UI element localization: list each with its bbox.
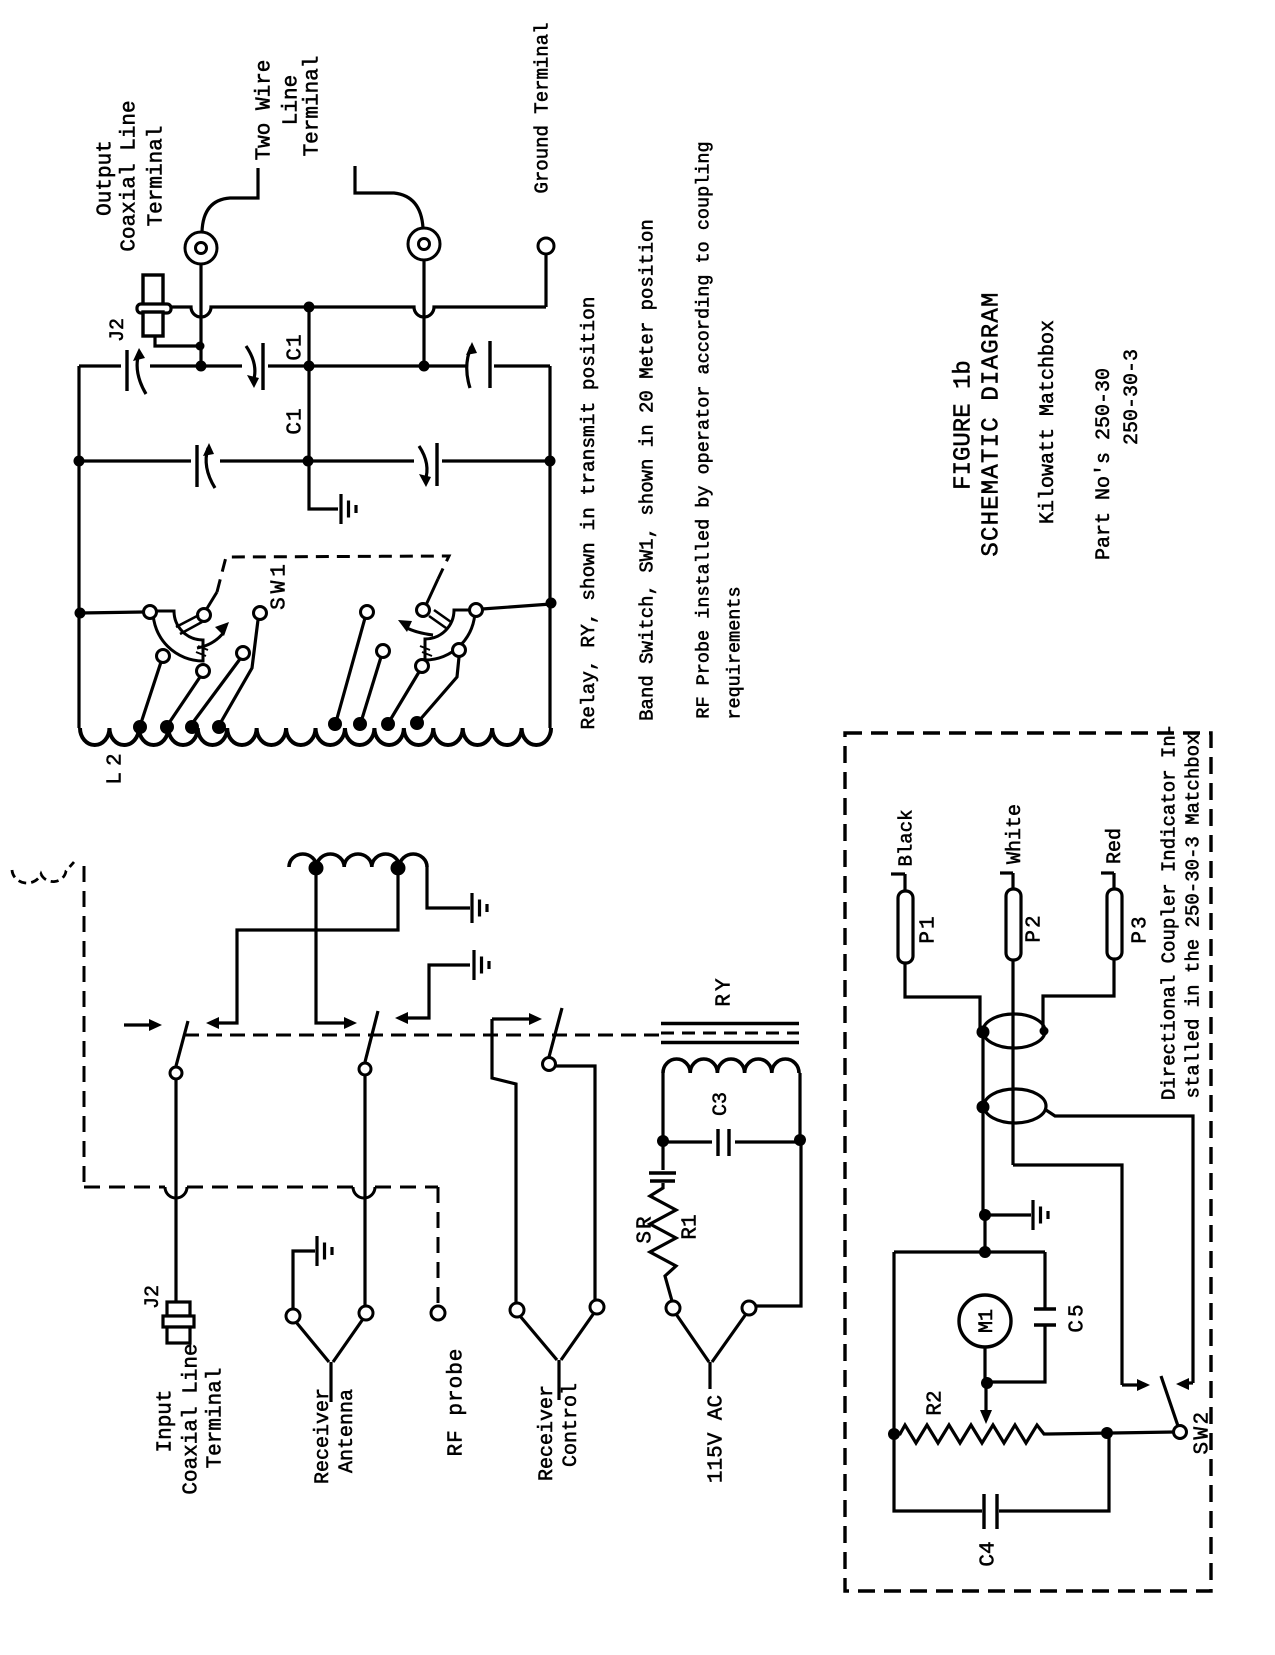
wire right rail xyxy=(548,366,551,728)
relay contact 1 throw arrow (left, free) xyxy=(124,1023,152,1026)
wire terminal2 drop xyxy=(422,260,425,363)
dashed enclosure (directional coupler) xyxy=(845,733,1211,1591)
node dot R2 right xyxy=(1101,1427,1113,1439)
SW1 right rotor crescent xyxy=(425,610,475,660)
115V AC terminal circle right xyxy=(742,1301,756,1315)
relay RY armature dashed center xyxy=(661,1032,799,1035)
relay linkage dashed line xyxy=(184,1034,661,1037)
svg-text:J2: J2 xyxy=(142,1285,165,1309)
lead wire from output coax terminal to Two Wire label xyxy=(202,168,258,232)
link coil tap dot A xyxy=(309,861,324,876)
node dot M1 bottom xyxy=(981,1377,993,1389)
SW1 left rotation arrow xyxy=(197,632,224,648)
rectifier SR xyxy=(649,1171,676,1174)
SW1 right contact (bus end) xyxy=(470,604,483,617)
wire RY coil right drop xyxy=(798,1073,801,1137)
connector J2 (input) top block xyxy=(167,1302,190,1316)
svg-text:Ground Terminal: Ground Terminal xyxy=(532,22,554,193)
wire ground terminal drop xyxy=(544,254,547,307)
wire P3 to coupler xyxy=(1043,959,1114,1028)
wire M1 arms xyxy=(894,1250,1045,1253)
wire to SW1 left rotor xyxy=(80,612,143,613)
ground G2 xyxy=(472,950,475,980)
node dot bus B at X309 xyxy=(303,456,314,467)
node dot toroid2 left xyxy=(977,1101,990,1114)
capacitor C5 xyxy=(1034,1307,1056,1310)
relay contact 3 common circle xyxy=(543,1058,556,1071)
SW1 left contact 4 xyxy=(254,607,267,620)
RF probe terminal circle xyxy=(431,1306,445,1320)
wire P2 through line xyxy=(1011,960,1014,1165)
capacitor C1 section B2 (variable) xyxy=(435,443,438,486)
wire bus B segments xyxy=(79,459,191,462)
svg-text:250-30-3: 250-30-3 xyxy=(1121,349,1144,445)
svg-text:J2: J2 xyxy=(107,318,130,342)
capacitor C1 section A2 (variable) xyxy=(261,343,264,390)
svg-text:Kilowatt Matchbox: Kilowatt Matchbox xyxy=(1037,320,1060,524)
SW1 right rotor feed contact xyxy=(417,604,430,617)
node dot M1 top xyxy=(979,1246,991,1258)
L2 tap dot 8 xyxy=(410,716,424,730)
node dot bus A at X424 xyxy=(419,361,430,372)
node dot R2 left xyxy=(888,1428,900,1440)
wire link tap A to relay contact 2 arrow xyxy=(316,875,347,1023)
plug P3 (Red) xyxy=(1107,889,1122,959)
wire C5 riser xyxy=(1043,1252,1046,1309)
wire toroid2 right exit xyxy=(1046,1110,1193,1377)
node dot top line / C1 riser xyxy=(304,302,315,313)
connector J2 (output coax jack) upper barrel xyxy=(143,275,163,305)
node dot bus A at X309 xyxy=(304,361,315,372)
wire C1 riser X309 xyxy=(307,307,310,461)
wire link coil right end to ground xyxy=(427,867,470,908)
wiper arrow to R2 xyxy=(984,1385,987,1412)
receiver control terminal right xyxy=(590,1300,604,1314)
wire ground junction to M1 node xyxy=(983,1215,986,1250)
switch SW2 common circle xyxy=(1174,1426,1187,1439)
terminal: Ground Terminal (circle) xyxy=(538,238,554,254)
plug P2 (White) xyxy=(1006,889,1021,960)
switch SW2 blade xyxy=(1161,1376,1178,1426)
wire C5 bottom xyxy=(992,1325,1045,1382)
ground G4 (coupler) xyxy=(1031,1200,1034,1230)
relay RY armature bars xyxy=(661,1022,799,1025)
svg-text:P1: P1 xyxy=(917,914,940,943)
svg-text:White: White xyxy=(1004,804,1027,864)
svg-text:115V AC: 115V AC xyxy=(705,1395,728,1483)
svg-text:C4: C4 xyxy=(977,1541,1000,1566)
relay contact 1 common circle xyxy=(170,1067,182,1079)
wire SW1 left contact2 to tap xyxy=(169,677,200,723)
svg-text:Terminal: Terminal xyxy=(145,126,168,227)
capacitor C1 section A3 (variable) xyxy=(488,341,491,388)
dashed link vertical (RF probe link) xyxy=(83,866,86,1183)
L2 tap dot 7 xyxy=(381,717,395,731)
node dot bus B right xyxy=(545,456,556,467)
115V AC terminal circle left xyxy=(666,1301,680,1315)
wire right branch of RY xyxy=(756,1144,801,1306)
SW1 right rotation arrow xyxy=(405,627,433,635)
wire relay contact3 common to receiver control right xyxy=(556,1066,595,1300)
wire SW1 left contact1 to tap xyxy=(141,662,161,723)
wire P3 top + tick xyxy=(1112,873,1115,889)
plug P1 (Black) xyxy=(898,891,913,963)
svg-text:C1: C1 xyxy=(284,407,307,434)
relay coil RY xyxy=(663,1059,799,1073)
relay contact 1 blade xyxy=(176,1021,188,1066)
SW1 right crescent hatch xyxy=(420,646,430,650)
wire relay contact1 common to input J2 xyxy=(174,1079,177,1301)
SW1 right contact 3 xyxy=(416,660,429,673)
SW1 right rotor fork xyxy=(429,616,446,628)
wire P1 top + tick xyxy=(903,874,906,891)
capacitor C4 loop xyxy=(894,1434,982,1511)
L2 tap dot 3 xyxy=(185,720,199,734)
wire left rail xyxy=(77,366,80,728)
terminal: Two Wire Line Terminal (double circle) xyxy=(408,228,440,260)
wire receiver antenna left to ground xyxy=(293,1251,315,1309)
connector J2 (input) flange xyxy=(163,1316,194,1327)
svg-text:P2: P2 xyxy=(1023,913,1046,942)
svg-text:Relay, RY, shown in transmit: Relay, RY, shown in transmit position xyxy=(578,297,600,730)
coupler toroid 2 (ellipse) xyxy=(984,1089,1046,1123)
SW1 left contact 3 xyxy=(237,647,250,660)
SW2 throw arrow right xyxy=(1191,1377,1194,1383)
svg-text:stalled in the 250-30-3 Matchb: stalled in the 250-30-3 Matchbox xyxy=(1183,734,1205,1099)
relay contact 2 common circle xyxy=(359,1063,371,1075)
wire bus A segments xyxy=(79,364,121,367)
svg-text:Coaxial Line: Coaxial Line xyxy=(118,100,141,251)
wire P2 branch to SW2 xyxy=(1013,1165,1122,1377)
svg-text:Output: Output xyxy=(94,140,117,216)
svg-text:requirements: requirements xyxy=(724,586,745,719)
svg-text:Part No's 250-30: Part No's 250-30 xyxy=(1093,368,1116,560)
svg-text:Band Switch, SW1, shown in 20: Band Switch, SW1, shown in 20 Meter posi… xyxy=(637,219,659,721)
relay contact 3 blade xyxy=(549,1008,562,1057)
capacitor C1 section A1 (variable) xyxy=(125,350,128,391)
SW1 right contact 1 xyxy=(361,606,374,619)
ground G1 (link coil) xyxy=(470,893,473,923)
wire terminal1 drop xyxy=(199,264,202,363)
SW1 right contact 4 xyxy=(453,644,466,657)
svg-text:Black: Black xyxy=(896,809,918,866)
receiver antenna terminal right xyxy=(359,1306,373,1320)
svg-text:Red: Red xyxy=(1104,828,1127,864)
receiver control V leads xyxy=(520,1316,557,1360)
wire SW1 left contact3 to tap xyxy=(194,659,240,721)
svg-text:FIGURE 1b: FIGURE 1b xyxy=(950,360,977,490)
wire SW1 right rotor to rail xyxy=(482,604,551,609)
node dot toroid1 left xyxy=(977,1026,990,1039)
svg-text:RF Probe installed by operator: RF Probe installed by operator according… xyxy=(693,141,714,718)
SW1 left contact 2 xyxy=(197,665,210,678)
svg-text:Two Wire: Two Wire xyxy=(253,60,276,161)
svg-text:Directional Coupler Indicator: Directional Coupler Indicator In- xyxy=(1159,724,1181,1100)
SW1 left rotor fork xyxy=(176,615,199,627)
svg-text:Terminal: Terminal xyxy=(301,56,324,157)
115V AC V leads xyxy=(676,1314,709,1362)
node dot ground junction xyxy=(979,1209,991,1221)
link coil tap dot B xyxy=(391,861,406,876)
wire J2 barrel to node xyxy=(155,336,196,346)
dashed link horizontal with hops xyxy=(84,1186,165,1189)
svg-text:P3: P3 xyxy=(1129,914,1152,943)
svg-text:Control: Control xyxy=(560,1383,583,1467)
wire M1 bottom xyxy=(983,1347,986,1380)
svg-text:Receiver: Receiver xyxy=(536,1385,559,1481)
svg-text:SW2: SW2 xyxy=(1191,1409,1214,1454)
capacitor C3 xyxy=(663,1140,712,1143)
connector J2 flange xyxy=(137,304,171,313)
svg-text:R2: R2 xyxy=(924,1390,947,1415)
connector J2 lower barrel xyxy=(143,312,163,336)
relay contact 3 throw arrow xyxy=(492,1017,532,1020)
wire SW1 right contact3 to tap xyxy=(389,672,419,722)
svg-text:Antenna: Antenna xyxy=(336,1389,359,1473)
SW1 left rotor feed contact xyxy=(198,609,211,622)
svg-text:Input: Input xyxy=(154,1389,177,1452)
receiver control terminal left xyxy=(510,1303,524,1317)
wire P2 top + tick xyxy=(1011,873,1014,889)
node dot toroid1 right xyxy=(1040,1027,1049,1036)
wire SW1 right contact4 to tap xyxy=(418,657,459,722)
capacitor C1 section B1 (variable) xyxy=(195,445,198,487)
svg-text:Receiver: Receiver xyxy=(312,1388,335,1484)
wire coupler left chain xyxy=(981,1032,984,1213)
SW1 left rotor crescent xyxy=(153,611,203,661)
node dot right rail SW1 feed xyxy=(546,598,557,609)
node dot J2 join xyxy=(196,342,205,351)
wire RY left to SR xyxy=(661,1144,664,1170)
svg-text:Line: Line xyxy=(280,75,303,125)
wire top line (flange to ground terminal) with hops xyxy=(170,307,546,317)
connector J2 (input) barrel xyxy=(167,1327,190,1343)
node dot bus A at X201 xyxy=(196,361,207,372)
node dot bus B left xyxy=(74,456,85,467)
wire to ground (bus B) xyxy=(309,461,338,509)
ground G3 (receiver antenna) xyxy=(315,1236,318,1266)
receiver antenna terminal left xyxy=(286,1309,300,1323)
svg-text:SW1: SW1 xyxy=(268,560,291,610)
relay contact 2 blade xyxy=(365,1011,378,1062)
meter M1 xyxy=(959,1295,1011,1347)
SW1 mechanical linkage (dashed) xyxy=(206,592,217,610)
L2 tap dot 5 xyxy=(328,717,342,731)
svg-text:SR: SR xyxy=(634,1214,657,1243)
svg-text:RY: RY xyxy=(713,975,736,1006)
link coil pickup (dashed stub) xyxy=(12,862,74,883)
inductor receiver link coil xyxy=(289,854,427,867)
lead wire from two-wire terminal to label xyxy=(355,166,423,228)
svg-text:R1: R1 xyxy=(679,1214,702,1239)
ground (output network) xyxy=(339,494,342,524)
SW1 right contact 2 xyxy=(377,645,390,658)
dashed link drop to RF probe xyxy=(437,1187,440,1306)
L2 tap dot 1 xyxy=(133,720,147,734)
svg-text:Coaxial Line: Coaxial Line xyxy=(180,1343,203,1494)
wire SW1 right contact1 to tap xyxy=(336,618,365,722)
svg-text:L2: L2 xyxy=(104,747,127,784)
wire relay contact2 common to receiver antenna xyxy=(363,1075,366,1306)
wire SW1 right contact2 to tap xyxy=(361,657,381,722)
L2 tap dot 6 xyxy=(353,717,367,731)
svg-text:C5: C5 xyxy=(1066,1301,1089,1332)
resistor R1 (zigzag) xyxy=(650,1183,676,1301)
relay contact 2 throw arrow from ground G2 xyxy=(405,965,470,1018)
svg-text:C3: C3 xyxy=(710,1092,733,1116)
wire RY coil left drop xyxy=(661,1073,664,1138)
wire M1 left drop xyxy=(892,1252,895,1431)
L2 tap dot 2 xyxy=(160,720,174,734)
svg-text:SCHEMATIC DIAGRAM: SCHEMATIC DIAGRAM xyxy=(978,291,1005,556)
wire SW1 left contact4 to tap xyxy=(221,620,258,722)
svg-text:C1: C1 xyxy=(284,333,307,360)
wire relay contact3 arrow to receiver control left xyxy=(492,1019,516,1303)
node dot left rail SW1 feed xyxy=(75,608,86,619)
relay contact 1 throw arrow from link tap B xyxy=(216,875,398,1023)
SW2 throw arrow left xyxy=(1120,1377,1123,1385)
L2 tap dot 4 xyxy=(212,720,226,734)
node dot RY right xyxy=(794,1134,806,1146)
wire P1 to coupler xyxy=(905,963,980,1028)
node dot RY left xyxy=(657,1135,669,1147)
wire to ground G4 xyxy=(985,1213,1031,1216)
svg-text:Terminal: Terminal xyxy=(204,1368,227,1469)
wire R2 to SW2 xyxy=(1048,1432,1174,1434)
coupler toroid 1 (ellipse) xyxy=(983,1014,1045,1048)
resistor R2 (potentiometer) xyxy=(894,1425,1048,1443)
terminal: Output Coaxial Line Terminal (double circle) xyxy=(185,232,217,264)
receiver antenna V leads xyxy=(296,1322,329,1362)
inductor L2 (main coil) xyxy=(80,728,551,745)
SW1 left contact (bus end) xyxy=(144,606,157,619)
SW1 left crescent hatch xyxy=(198,646,208,650)
svg-text:RF probe: RF probe xyxy=(445,1348,468,1457)
svg-text:M1: M1 xyxy=(976,1309,999,1333)
SW1 left contact 1 xyxy=(157,650,170,663)
